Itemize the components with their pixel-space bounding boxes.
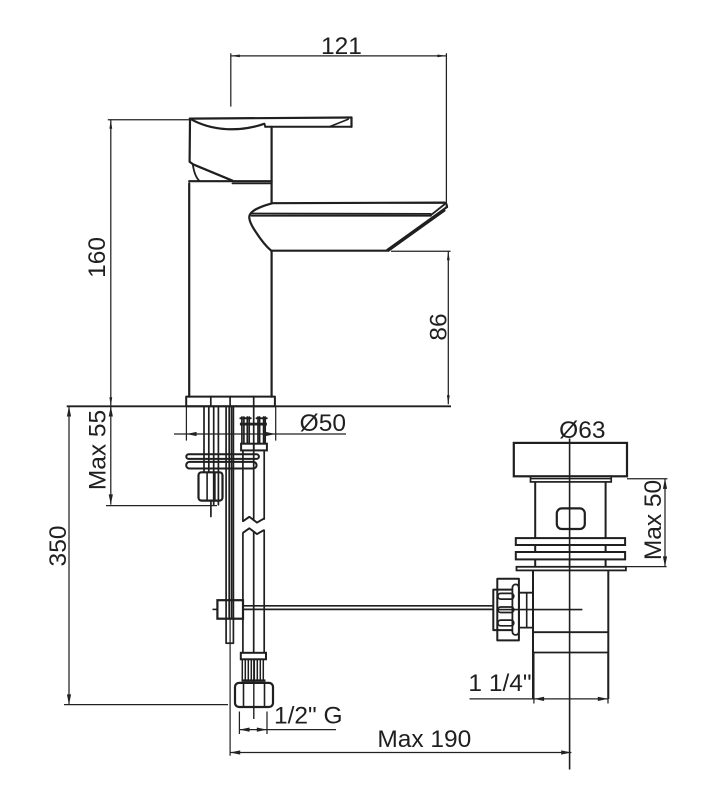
thread fork tick 3 xyxy=(257,417,262,419)
arrow 86 top xyxy=(447,251,450,260)
hose left line upper xyxy=(242,450,244,521)
fixing nut xyxy=(199,472,223,500)
drain flange xyxy=(514,443,627,476)
spout top band line2 xyxy=(252,215,431,217)
hex nut facet right xyxy=(264,683,266,707)
handle bottom slant xyxy=(193,164,233,180)
arrow Max55 bottom xyxy=(109,494,113,504)
ext 1/2 left xyxy=(238,712,240,735)
svg-text:1 1/4": 1 1/4" xyxy=(468,670,531,697)
column right edge lower xyxy=(271,251,273,397)
tailpiece upper right edge xyxy=(607,570,609,699)
nut facet right xyxy=(214,472,216,500)
svg-text:160: 160 xyxy=(84,237,111,278)
arrow Max50 top xyxy=(663,479,667,489)
base plate xyxy=(186,397,275,407)
connector dark band xyxy=(242,679,266,681)
nut facet left xyxy=(206,472,208,500)
hose right line lower xyxy=(263,530,265,653)
knurl slot 2 xyxy=(498,607,514,613)
thread fork tick 2 xyxy=(246,417,251,419)
arm divider xyxy=(526,593,528,628)
knurled adjuster nut body xyxy=(493,579,533,641)
pop-up rod outer right xyxy=(232,406,234,643)
thread fork tick 1 xyxy=(240,417,245,419)
knurl back column xyxy=(497,579,519,641)
lever tip diagonal xyxy=(329,119,348,127)
drain lever inner line xyxy=(498,609,583,611)
ext D50 right xyxy=(275,407,277,441)
drain body right edge xyxy=(605,482,607,570)
dim 86 line xyxy=(447,251,449,404)
drain center line redraw over bars xyxy=(569,538,571,570)
lever plate right cap xyxy=(350,118,352,127)
thread fork tick 4 xyxy=(262,417,267,419)
svg-text:86: 86 xyxy=(425,313,452,340)
svg-text:Max 190: Max 190 xyxy=(377,726,471,753)
arrow 1/2 right xyxy=(257,728,267,732)
dim D50 line xyxy=(174,433,346,435)
dim 350 line xyxy=(68,406,70,704)
knurl slot 3 xyxy=(498,620,514,626)
dim 1-1/4 line xyxy=(470,698,609,700)
handle curve xyxy=(190,119,264,130)
lever slot hole xyxy=(557,508,585,529)
dim 160 + Max55 line xyxy=(110,120,112,505)
drain body left edge xyxy=(534,482,536,570)
arrow 86 bottom xyxy=(447,395,450,404)
horizontal linkage rod line2 xyxy=(243,608,493,610)
svg-text:350: 350 xyxy=(45,526,72,567)
hose thread tip pair 2 xyxy=(246,417,248,443)
hose break zigzag upper xyxy=(243,517,264,523)
shank outer right xyxy=(208,406,210,472)
friction washer bar 1 xyxy=(516,538,625,545)
column left edge xyxy=(188,183,190,396)
pop-up rod outer left xyxy=(225,406,227,643)
arrow 1/2 left xyxy=(239,728,249,732)
arrow 160 top xyxy=(109,120,112,129)
ext Max50 top xyxy=(627,478,667,480)
svg-text:Max 55: Max 55 xyxy=(84,410,111,490)
spout beak inner line xyxy=(431,205,445,216)
knurl right capsule xyxy=(512,584,519,635)
arrow Max55 top xyxy=(109,406,113,416)
arrow D50 left xyxy=(186,432,196,436)
flange lip inner line xyxy=(531,478,612,480)
ext Max55 bottom xyxy=(106,505,217,507)
hose break zigzag lower xyxy=(243,528,264,534)
arrow Max190 left xyxy=(230,750,240,754)
lever plate step xyxy=(264,124,267,127)
hose thread tip pair 1 xyxy=(241,417,243,443)
plate stub A xyxy=(210,397,212,407)
friction washer bar 2 xyxy=(516,552,625,559)
ext 160 top xyxy=(108,119,189,121)
knurl wheel xyxy=(493,590,513,631)
arrow 1-1/4 right xyxy=(598,697,608,701)
dim 1/2 line xyxy=(239,729,336,731)
cartridge dome arc xyxy=(193,165,200,182)
hose center line upper xyxy=(253,397,255,521)
rod below block bottom xyxy=(226,642,233,644)
pop-up rod inner left xyxy=(228,406,230,618)
arrow 350 top xyxy=(67,406,71,416)
stud tip stub xyxy=(210,501,212,517)
handle bottom line xyxy=(189,180,271,182)
lever plate bottom edge xyxy=(265,126,351,128)
connector thread lines xyxy=(241,659,243,679)
hose right line upper xyxy=(263,450,265,519)
body neck line xyxy=(233,182,272,184)
body right edge upper xyxy=(271,127,273,204)
dim Max50 line xyxy=(664,479,666,567)
ext 1-1/4 right xyxy=(607,653,609,704)
inlet hex nut xyxy=(235,683,273,707)
hose thread tip pair 3 xyxy=(257,417,259,443)
spout top band line1 xyxy=(251,213,430,215)
hose end collar2 xyxy=(241,653,266,660)
rod left stub xyxy=(213,608,218,610)
ext 86 top xyxy=(391,250,451,252)
svg-text:121: 121 xyxy=(321,33,362,60)
arrow 121 right xyxy=(437,55,446,58)
arrow 160 bottom xyxy=(109,397,112,406)
ext 121 left xyxy=(230,53,232,106)
pop-up rod inner right xyxy=(231,406,233,618)
shank outer left xyxy=(203,406,205,472)
spout left curve xyxy=(249,203,271,250)
spout bottom edge xyxy=(271,250,388,252)
handle body left edge xyxy=(190,119,193,165)
shank inner left xyxy=(213,406,215,505)
spout underside slant inner xyxy=(389,211,445,251)
plate stub B xyxy=(229,397,231,407)
rod center extension (Max190 left ext) xyxy=(229,619,231,756)
spout top edge xyxy=(272,203,447,207)
countertop line xyxy=(67,405,451,407)
shank inner right xyxy=(217,406,219,505)
ext 121 right xyxy=(445,53,447,208)
spout underside slant outer xyxy=(387,207,447,250)
horizontal linkage rod line1 xyxy=(243,605,493,607)
svg-text:1/2" G: 1/2" G xyxy=(274,702,343,729)
knurl slot 1 xyxy=(498,593,514,599)
hose thread tip pair 4 xyxy=(263,417,265,443)
ext 1/2 right xyxy=(266,712,268,735)
lever plate top edge xyxy=(190,118,352,119)
ext D50 left xyxy=(185,407,187,441)
svg-text:Ø63: Ø63 xyxy=(559,417,605,444)
pop-up rod block xyxy=(217,600,243,619)
hose collar xyxy=(241,444,267,451)
tailpiece joint line 2 xyxy=(533,652,608,654)
tailpiece joint line 1 xyxy=(533,631,608,633)
adjuster arm xyxy=(519,593,533,628)
dim Max190 line xyxy=(230,752,571,754)
svg-text:Ø50: Ø50 xyxy=(300,410,346,437)
ext Max50 bottom xyxy=(623,566,667,568)
washer plate 1 xyxy=(186,454,259,459)
arrow 121 left xyxy=(231,55,240,58)
arrow Max50 bottom xyxy=(663,556,667,566)
flange lip xyxy=(531,476,612,482)
arrow D50 right xyxy=(266,432,276,436)
hose collar divider xyxy=(253,444,255,451)
drain center line xyxy=(569,439,571,770)
ext 350 bottom xyxy=(64,704,228,706)
thread collar bar xyxy=(240,423,267,426)
arrow 1-1/4 left xyxy=(534,697,544,701)
hex nut center stub xyxy=(253,659,255,719)
arrow 350 bottom xyxy=(67,694,71,704)
hex nut facet left xyxy=(243,683,245,707)
washer plate 2 xyxy=(186,462,256,469)
gasket bar 3 xyxy=(517,567,626,571)
hose center line lower xyxy=(253,532,255,653)
ext 1-1/4 left xyxy=(533,653,535,704)
tailpiece upper left edge xyxy=(532,570,534,699)
hose left line lower xyxy=(242,533,244,653)
svg-text:Max 50: Max 50 xyxy=(640,480,667,560)
arrow Max190 right xyxy=(561,750,571,754)
dim 121 line xyxy=(231,55,447,57)
